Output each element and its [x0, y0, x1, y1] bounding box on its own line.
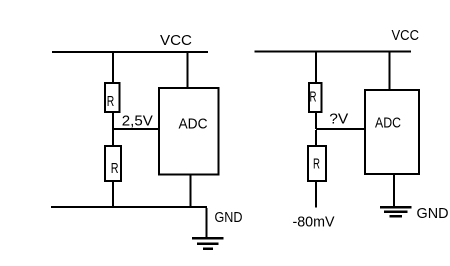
resistor R1	[105, 83, 120, 112]
op-amp U1 ADC box (left)	[159, 88, 219, 175]
wire node to ADC U1 input	[112, 128, 159, 130]
wire from bottom rail end down to ground	[206, 208, 208, 237]
wire from R2 down to bottom rail	[112, 181, 114, 207]
wire from R1 to node 2,5V	[112, 112, 114, 129]
wire from ADC U1 bottom to bottom rail	[190, 175, 192, 207]
resistor R3	[309, 83, 322, 112]
wire bottom rail (left circuit)	[51, 206, 207, 208]
resistor R4	[308, 146, 326, 181]
svg-text:?V: ?V	[329, 111, 348, 128]
wire from VCC rail down to resistor R3	[315, 53, 317, 83]
svg-text:-80mV: -80mV	[293, 214, 335, 231]
wire VCC top rail (right circuit)	[255, 51, 412, 53]
svg-text:2,5V: 2,5V	[122, 113, 153, 130]
svg-text:GND: GND	[215, 209, 243, 226]
wire from node down to resistor R4	[315, 130, 317, 146]
wire VCC top rail (left circuit)	[52, 51, 208, 53]
svg-text:VCC: VCC	[160, 32, 192, 49]
svg-text:R: R	[313, 156, 320, 173]
op-amp U2 ADC box (right)	[365, 90, 419, 174]
wire from VCC rail down to ADC U1	[187, 53, 189, 87]
wire from VCC rail down to resistor R1	[112, 53, 114, 82]
svg-text:VCC: VCC	[392, 27, 420, 44]
svg-text:R: R	[107, 93, 115, 110]
svg-text:GND: GND	[417, 205, 449, 222]
wire node to ADC U2 input	[316, 128, 364, 130]
wire from ADC U2 bottom to ground	[393, 174, 395, 206]
ground (left circuit)	[192, 237, 224, 250]
svg-text:R: R	[310, 89, 317, 106]
ground (right circuit)	[380, 206, 412, 218]
wire from VCC rail down to ADC U2	[389, 53, 391, 90]
wire from R4 down to -80mV terminal	[315, 181, 317, 208]
wire from node down to resistor R2	[112, 130, 114, 146]
svg-text:ADC: ADC	[375, 115, 401, 132]
wire from R3 to node ?V	[315, 112, 317, 129]
svg-text:R: R	[111, 160, 119, 177]
resistor R2	[105, 146, 121, 181]
svg-text:ADC: ADC	[179, 116, 208, 133]
